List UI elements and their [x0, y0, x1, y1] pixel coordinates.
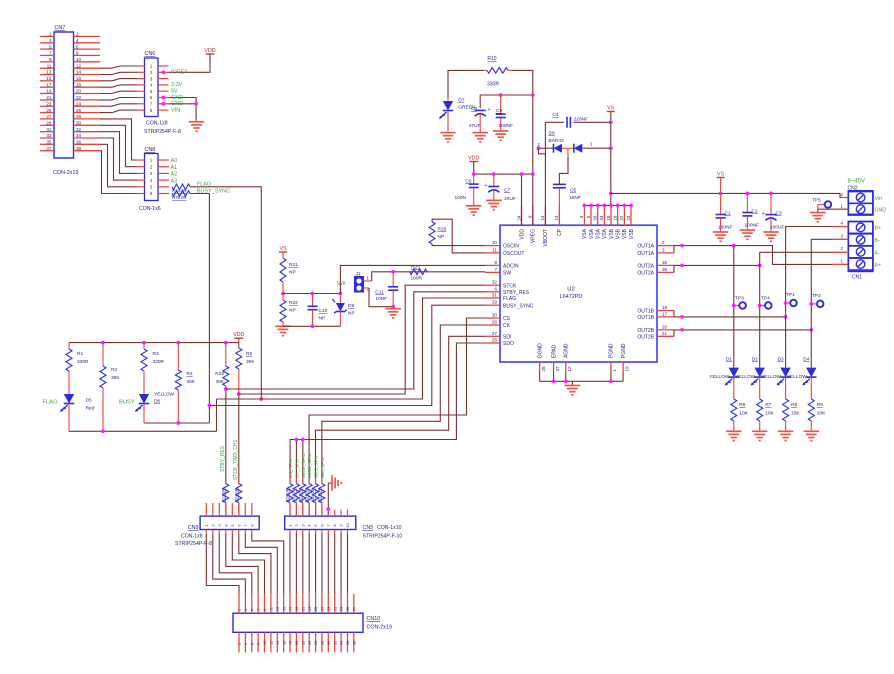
CN6 pin 7	[137, 102, 169, 107]
wire CN5 pin 6 to CN10 column 14	[321, 534, 323, 594]
wire SDO net chip to CN5 cols1-3	[290, 343, 485, 484]
wire R10 left to D7	[448, 70, 483, 98]
svg-text:3.3V: 3.3V	[171, 82, 183, 88]
CN10 top pin 17	[289, 594, 293, 614]
U2 left pin 30 CS	[485, 313, 511, 323]
svg-text:A2: A2	[171, 172, 178, 178]
svg-text:16: 16	[282, 641, 286, 645]
CN10 top pin 7	[257, 594, 261, 614]
wire CN7 pin 28 to CN8 pin 1	[100, 119, 137, 160]
svg-text:CP: CP	[557, 228, 563, 236]
svg-text:VS: VS	[607, 105, 615, 111]
junction VS rail C2	[746, 192, 750, 196]
svg-text:25: 25	[46, 108, 52, 113]
junction OUT1A start	[680, 244, 684, 248]
LED D3 YELLOW	[761, 356, 791, 399]
svg-text:C3: C3	[776, 211, 782, 217]
svg-text:CON-1x8: CON-1x8	[181, 534, 203, 540]
CN9 pin 5	[230, 503, 235, 534]
svg-text:22: 22	[301, 641, 305, 645]
U2 left pin 7 SW	[485, 267, 511, 277]
junction BUSY vertical row405	[208, 404, 212, 408]
U2 top pin 34 VSA	[599, 205, 608, 239]
U2 left pin 26 CK	[485, 320, 511, 330]
junction VS bus pin	[616, 204, 620, 208]
junction rail R3	[142, 341, 146, 345]
resistor R21 NP	[280, 252, 298, 294]
CN9 pin 3	[217, 503, 222, 534]
svg-text:STRIP254P-F-8: STRIP254P-F-8	[144, 129, 181, 135]
svg-text:100NF: 100NF	[718, 225, 732, 231]
svg-text:17: 17	[289, 607, 293, 611]
CN10 top pin 9	[263, 594, 267, 614]
resistor R6 10K	[731, 399, 749, 431]
U2 top pin 23 VSB	[626, 205, 635, 239]
svg-text:R17 0R: R17 0R	[316, 488, 321, 502]
svg-text:TP3: TP3	[735, 296, 744, 302]
wire A- net	[760, 252, 849, 367]
svg-text:30: 30	[76, 121, 82, 126]
U2 top pin 14 VBOOT	[540, 205, 549, 246]
svg-text:R10: R10	[487, 56, 496, 62]
svg-text:TP4: TP4	[761, 296, 770, 302]
svg-text:5: 5	[49, 44, 52, 49]
CN7 pin 26 stub	[74, 108, 101, 113]
svg-text:OUT1A: OUT1A	[637, 251, 654, 257]
svg-text:IOREF: IOREF	[171, 70, 188, 76]
U2 left pin 6 STBY_RES	[485, 286, 530, 296]
svg-text:5: 5	[250, 609, 254, 611]
CN10 top pin 37	[352, 594, 356, 614]
svg-text:3: 3	[49, 38, 52, 43]
svg-text:10: 10	[263, 641, 267, 645]
CN10 bottom pin 26	[314, 632, 318, 652]
svg-text:14: 14	[276, 641, 280, 645]
junction SDO col3	[301, 438, 305, 442]
resistor R7 10K	[757, 399, 775, 431]
wire CN5 pin 5 to CN10 column 13	[315, 534, 317, 594]
U2 right pin 20 OUT2B	[637, 324, 674, 334]
svg-text:19: 19	[46, 89, 52, 94]
svg-text:2: 2	[238, 643, 242, 645]
CN7 pin 36 stub	[74, 140, 101, 145]
CN6 pin 1	[137, 64, 169, 69]
junction IOREF	[162, 70, 166, 74]
svg-text:35: 35	[346, 607, 350, 611]
wire CN7 pin 14 to CN6 pin 2	[100, 72, 137, 74]
CN7 pin 19 stub	[40, 89, 54, 94]
resistor R15 0R	[310, 479, 319, 510]
svg-text:MOSI_SPI1: MOSI_SPI1	[301, 453, 306, 478]
svg-text:R6: R6	[739, 402, 745, 408]
resistor R13 0R	[297, 479, 306, 510]
svg-text:VSA: VSA	[596, 228, 602, 239]
resistor R74 0R on CN8 pin5	[172, 184, 190, 193]
CN10 top pin 1	[238, 594, 242, 614]
svg-text:OUT1B: OUT1B	[637, 315, 654, 321]
svg-text:23: 23	[626, 215, 631, 221]
wire VSA VSB supply bus	[584, 204, 631, 206]
svg-text:27: 27	[321, 607, 325, 611]
svg-text:31: 31	[333, 607, 337, 611]
svg-text:R3: R3	[153, 351, 159, 357]
svg-text:29: 29	[327, 607, 331, 611]
svg-text:VDD: VDD	[204, 48, 215, 54]
resistor R24 0R	[233, 479, 242, 503]
svg-text:R15 0R: R15 0R	[310, 488, 315, 502]
resistor R12 0R	[291, 479, 300, 510]
wire VDD rail of LED block	[69, 338, 239, 348]
svg-text:VDD: VDD	[233, 332, 244, 338]
capacitor C10 NP	[308, 294, 328, 327]
junction R21 R22 divider	[281, 292, 285, 296]
CN7 pin 9 stub	[40, 57, 54, 62]
svg-text:A0: A0	[171, 158, 178, 164]
svg-text:SW: SW	[336, 281, 346, 287]
junction rail VREG col	[531, 93, 535, 97]
wire CN7 pin 18 to CN6 pin 4	[100, 85, 137, 87]
test point TP1	[786, 292, 797, 306]
svg-text:1: 1	[612, 369, 617, 372]
ground below R6	[726, 431, 742, 440]
capacitor C7 10UF electrolytic	[484, 174, 515, 202]
CN5 pin 10	[345, 510, 350, 535]
svg-text:R1: R1	[77, 351, 83, 357]
capacitor C4 220NF	[545, 112, 610, 128]
wire CN9 pin 2 to CN10 column 2	[213, 534, 246, 594]
CN10 top pin 27	[321, 594, 325, 614]
svg-text:35: 35	[46, 140, 52, 145]
CN10 bottom pin 8	[257, 632, 261, 652]
svg-text:24: 24	[76, 101, 82, 106]
svg-text:100UF: 100UF	[770, 225, 784, 231]
svg-text:TP1: TP1	[786, 292, 795, 298]
CN10 bottom pin 18	[289, 632, 293, 652]
U2 right pin 36 OUT2A	[637, 267, 674, 277]
svg-text:25: 25	[314, 607, 318, 611]
CN7 pin 7 stub	[40, 51, 54, 56]
svg-text:R23: R23	[411, 264, 420, 270]
wire CN5 pin 10 to CN10 column 18	[347, 534, 349, 594]
svg-text:YELLOW: YELLOW	[709, 374, 729, 380]
U2 left pin 8 ADCIN	[485, 260, 519, 270]
svg-text:34: 34	[340, 641, 344, 645]
svg-text:R26: R26	[438, 227, 447, 233]
svg-text:R13 0R: R13 0R	[297, 488, 302, 502]
svg-text:11: 11	[47, 63, 52, 68]
junction TP4	[758, 304, 762, 308]
U2 right pin 35 OUT2A	[637, 260, 674, 270]
svg-text:12: 12	[567, 366, 572, 372]
junction TP3	[732, 304, 736, 308]
svg-text:CON-2x19: CON-2x19	[53, 170, 78, 176]
ground below C2	[740, 230, 756, 239]
resistor R17 0R	[316, 479, 325, 510]
CN9 pin 7	[243, 503, 248, 534]
CN7 pin 34 stub	[74, 133, 101, 138]
svg-text:5: 5	[586, 215, 591, 218]
CN10 bottom pin 6	[250, 632, 254, 652]
wire CN9 pin6 column red lead	[238, 503, 240, 516]
junction OUT2B start	[680, 328, 684, 332]
CN10 top pin 23	[308, 594, 312, 614]
junction STBY row	[224, 387, 228, 391]
CN7 pin 18 stub	[74, 82, 101, 87]
svg-text:28: 28	[321, 641, 325, 645]
U2 right pin 2 OUT1A	[637, 240, 674, 250]
junction VS bus pin	[589, 204, 593, 208]
wire joining OUT1B pins	[673, 311, 675, 317]
wire bottom rail R22 C10 D9	[283, 325, 340, 327]
svg-text:27: 27	[492, 331, 498, 336]
junction OUT1B start	[680, 315, 684, 319]
svg-text:+: +	[487, 107, 490, 113]
svg-text:19: 19	[624, 366, 629, 372]
CN8 pin 3	[137, 171, 169, 176]
svg-text:C4: C4	[552, 112, 558, 118]
svg-text:A-: A-	[875, 250, 880, 256]
junction VS bus pin	[609, 204, 613, 208]
svg-text:5V: 5V	[171, 89, 178, 95]
svg-text:VS: VS	[279, 246, 287, 252]
junction OUT1B D3 column	[784, 315, 788, 319]
connector CN9 CON-1x8 body	[175, 516, 259, 547]
svg-text:2: 2	[662, 240, 665, 245]
CN5 pin 5	[313, 510, 318, 535]
CN6 pin 2	[137, 70, 169, 75]
svg-text:18: 18	[662, 305, 668, 310]
power VS symbol right	[717, 171, 725, 193]
U2 top pin 5 VSA	[586, 205, 595, 239]
svg-text:10NF: 10NF	[569, 195, 581, 201]
CN10 bottom pin 34	[340, 632, 344, 652]
svg-text:17: 17	[46, 82, 52, 87]
svg-text:30: 30	[327, 641, 331, 645]
svg-text:7: 7	[257, 609, 261, 611]
svg-text:7: 7	[49, 51, 52, 56]
svg-text:21: 21	[662, 331, 668, 336]
power VS symbol top	[607, 105, 615, 111]
CN10 bottom pin 4	[244, 632, 248, 652]
CN10 bottom pin 38	[352, 632, 356, 652]
wire CS net chip to CN5 col4	[309, 318, 485, 484]
CN7 pin 25 stub	[40, 108, 54, 113]
junction rail R4	[176, 341, 180, 345]
svg-text:R2: R2	[111, 367, 117, 373]
junction GND vertical	[194, 102, 198, 106]
CN8 pin 6	[137, 191, 169, 196]
U2 bottom pin 19 PGND	[621, 343, 629, 371]
svg-text:38: 38	[352, 641, 356, 645]
svg-text:13: 13	[554, 215, 559, 221]
svg-text:OUT1B: OUT1B	[637, 309, 654, 315]
test point TP3	[734, 296, 746, 309]
wire D8 mid to C5	[559, 148, 568, 184]
svg-text:27: 27	[46, 114, 52, 119]
svg-text:1: 1	[238, 609, 242, 611]
svg-text:CN6: CN6	[145, 51, 156, 57]
svg-text:39K: 39K	[187, 379, 196, 385]
svg-text:9: 9	[263, 609, 267, 611]
CN7 pin 22 stub	[74, 95, 101, 100]
CN7 pin 6 stub	[74, 44, 101, 49]
svg-text:100NF: 100NF	[499, 123, 513, 129]
svg-text:6: 6	[250, 643, 254, 645]
CN9 pin 8	[249, 503, 254, 534]
svg-text:R25: R25	[215, 371, 224, 377]
CN10 top pin 19	[295, 594, 299, 614]
svg-text:100R: 100R	[411, 275, 423, 281]
junction VS bus pin	[583, 204, 587, 208]
U2 top pin 13 CP	[554, 205, 563, 236]
CN10 top pin 35	[346, 594, 350, 614]
svg-text:OUT2A: OUT2A	[637, 271, 654, 277]
svg-text:OSCOUT: OSCOUT	[503, 251, 524, 257]
svg-text:23: 23	[308, 607, 312, 611]
resistor R5 39K	[236, 348, 256, 394]
LED D2 YELLOW	[735, 356, 765, 399]
zener diode D9 NP	[332, 294, 354, 327]
CN5 pin 8	[332, 510, 337, 535]
U2 left pin 32 STCK	[485, 280, 517, 290]
svg-text:SDI_SPI1: SDI_SPI1	[320, 457, 325, 478]
svg-text:18: 18	[289, 641, 293, 645]
CN10 bottom pin 22	[301, 632, 305, 652]
svg-text:SDO_SPI1: SDO_SPI1	[314, 455, 319, 478]
CN10 bottom pin 24	[308, 632, 312, 652]
svg-text:VSB: VSB	[629, 228, 635, 239]
svg-text:39K: 39K	[111, 375, 120, 381]
svg-text:Vin: Vin	[875, 196, 883, 202]
svg-text:B-: B-	[875, 238, 880, 244]
U2 left pin 27 SDI	[485, 331, 511, 341]
U2 top pin 9 VREG	[528, 205, 537, 243]
capacitor C5 10NF	[553, 184, 581, 225]
CN7 pin 11 stub	[40, 63, 54, 68]
CN7 pin 12 stub	[74, 63, 101, 68]
connector CN2 screw terminal 8~45V	[848, 179, 873, 216]
svg-text:2: 2	[76, 32, 79, 37]
junction VDD C7	[492, 172, 496, 176]
CN7 pin 33 stub	[40, 133, 54, 138]
junction VDD C6	[472, 172, 476, 176]
op-amp U2 L6472PD body	[500, 225, 657, 362]
junction STCK row	[237, 392, 241, 396]
connector CN5 CON-1x10 body	[285, 516, 403, 539]
svg-text:C9: C9	[496, 108, 502, 114]
junction GND row6	[162, 96, 166, 100]
svg-text:11: 11	[270, 607, 274, 611]
svg-text:VIN: VIN	[171, 107, 180, 113]
svg-text:34: 34	[76, 133, 82, 138]
U2 bottom pin 12 AGND	[564, 343, 572, 371]
U2 top pin 33 VSA	[593, 205, 602, 239]
CN9 pin 2	[210, 503, 215, 534]
svg-text:SDO: SDO	[503, 341, 514, 347]
svg-text:38: 38	[76, 146, 82, 151]
CN7 pin 13 stub	[40, 70, 54, 75]
wire CN5 pin 2 to CN10 column 10	[295, 534, 297, 594]
svg-text:MISO_SPI1: MISO_SPI1	[307, 453, 312, 478]
junction C10 top	[311, 292, 315, 296]
svg-text:23: 23	[46, 101, 52, 106]
capacitor C3 100UF electrolytic	[762, 193, 785, 232]
CN7 pin 38 stub	[74, 146, 101, 151]
svg-text:B+: B+	[875, 226, 882, 232]
resistor R2 39K	[100, 343, 120, 432]
junction FLAG vertical row399	[259, 397, 263, 401]
wire OSCIN loop	[432, 244, 485, 246]
svg-text:CN8: CN8	[145, 147, 156, 153]
svg-text:TP5: TP5	[812, 198, 821, 204]
svg-text:CN5: CN5	[363, 525, 374, 531]
junction TP2	[809, 302, 813, 306]
wire BUSY row to D6 and R4	[144, 422, 209, 424]
svg-text:21: 21	[46, 95, 52, 100]
junction VDD chip col	[520, 172, 524, 176]
svg-text:CN9: CN9	[188, 525, 199, 531]
CN10 bottom pin 14	[276, 632, 280, 652]
svg-text:CON-1x6: CON-1x6	[139, 206, 161, 212]
junction GND row7	[162, 102, 166, 106]
svg-text:C7: C7	[504, 188, 510, 194]
CN10 bottom pin 20	[295, 632, 299, 652]
svg-text:D4: D4	[803, 356, 809, 362]
svg-text:PGND: PGND	[609, 343, 615, 358]
junction VREG col rail	[531, 172, 535, 176]
wire CN5 pin 7 to CN10 column 15	[327, 534, 329, 594]
CN6 pin 5	[137, 89, 169, 94]
CN9 pin 4	[223, 503, 228, 534]
svg-text:20: 20	[76, 89, 82, 94]
svg-text:6: 6	[494, 286, 497, 291]
wire SDI net chip to CN5 col5	[316, 336, 486, 483]
svg-text:R16 0R: R16 0R	[285, 488, 290, 502]
svg-text:CN7: CN7	[55, 25, 66, 31]
svg-text:GND: GND	[171, 95, 183, 101]
svg-text:EPAD: EPAD	[551, 344, 557, 358]
svg-text:36: 36	[346, 641, 350, 645]
wire CN7 pin 34 to CN8 pin 4	[100, 138, 137, 180]
wire CN7 pin 30 to CN8 pin 2	[100, 125, 137, 166]
junction VS C4	[609, 120, 613, 124]
svg-text:VSB: VSB	[622, 228, 628, 239]
resistor R23 100R	[410, 264, 427, 281]
resistor R9 10K	[808, 399, 826, 431]
svg-text:YELLOW: YELLOW	[154, 391, 174, 397]
U2 right pin 17 OUT1B	[637, 311, 674, 321]
resistor R16 0R	[285, 479, 294, 510]
wire CN9 pin 7 to CN10 column 7	[245, 534, 277, 594]
svg-text:34: 34	[599, 215, 604, 221]
wire CN7 pin 20 to CN6 pin 5	[100, 91, 137, 93]
junction OUT1A D1 column	[732, 244, 736, 248]
svg-text:+: +	[762, 211, 765, 217]
svg-text:CON-1x8: CON-1x8	[146, 121, 168, 127]
svg-text:STBY_RES: STBY_RES	[503, 290, 530, 296]
U2 left pin 31 FLAG	[485, 293, 516, 303]
svg-text:VSA: VSA	[582, 228, 588, 239]
svg-text:26: 26	[76, 108, 82, 113]
svg-text:R75 0R: R75 0R	[172, 195, 187, 200]
ground below C1	[713, 232, 729, 241]
svg-text:GND: GND	[171, 101, 183, 107]
CN8 pin 1	[137, 158, 169, 163]
CN10 bottom pin 36	[346, 632, 350, 652]
wire BUSY_SYNC from CN8 pin6 down long vertical	[190, 194, 209, 424]
CN7 pin 21 stub	[40, 95, 54, 100]
U2 left pin 25 SDO	[485, 338, 514, 348]
